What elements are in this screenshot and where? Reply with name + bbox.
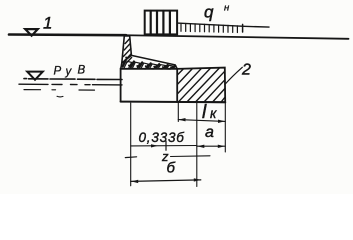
water level mark: [27, 72, 43, 80]
body bottom edge: [121, 101, 226, 104]
b left arrow: [131, 180, 138, 183]
wall body (white block): [121, 69, 177, 102]
svg-text:1: 1: [43, 14, 52, 33]
svg-text:2: 2: [241, 62, 251, 79]
ground line right: [126, 35, 349, 39]
dimension 0,333b line: [131, 145, 197, 147]
dimension b line: [131, 180, 201, 182]
extension line E3: [196, 102, 198, 187]
0,333b tick: [165, 141, 167, 150]
svg-text:В: В: [78, 65, 86, 77]
extension line E4: [224, 103, 226, 153]
svg-text:Р: Р: [54, 66, 62, 78]
berm stone wedges: [123, 60, 176, 68]
svg-text:н: н: [224, 3, 230, 14]
berm stone dots: [125, 57, 172, 69]
leader to label 2: [225, 67, 243, 84]
svg-text:а: а: [205, 124, 214, 141]
extension line E1: [130, 103, 132, 186]
surcharge low load ticks: [181, 23, 243, 32]
svg-text:к: к: [210, 106, 217, 121]
l_k left arrow: [179, 118, 186, 121]
dimension l_k line: [178, 120, 225, 122]
water surface dashes row 3: [24, 89, 95, 92]
b right arrow: [194, 178, 201, 181]
rubble berm band outline: [131, 55, 177, 68]
svg-text:l: l: [202, 102, 207, 123]
a right arrow: [218, 145, 225, 148]
surcharge low load top line: [177, 23, 269, 27]
svg-text:у: у: [65, 66, 73, 78]
surcharge tall block: [145, 11, 177, 35]
water surface dashes row 2: [19, 83, 122, 86]
hatch block diagonal lines: [177, 68, 225, 102]
a left arrow: [197, 145, 204, 148]
svg-text:0,333б: 0,333б: [139, 130, 185, 145]
z line: [171, 155, 211, 158]
hatched block 2 outline: [177, 68, 225, 103]
ground line left: [9, 33, 126, 36]
dimension a line: [197, 145, 226, 147]
extension line E2: [177, 102, 179, 122]
tick on E1: [125, 156, 136, 159]
berm left edge: [121, 63, 122, 69]
svg-text:q: q: [204, 3, 214, 22]
l_k right arrow: [218, 120, 225, 123]
svg-text:б: б: [167, 160, 176, 177]
water surface squiggle row 4: [57, 95, 63, 98]
0,333b arrow: [151, 144, 158, 147]
column hatch: [123, 39, 132, 63]
tall block inner bars: [150, 11, 152, 34]
berm band stones: [124, 61, 174, 69]
wall parapet column (hatched): [122, 36, 132, 63]
level mark 1 (triangle symbol on ground line): [25, 29, 38, 36]
water surface dashes row 1: [24, 78, 122, 81]
